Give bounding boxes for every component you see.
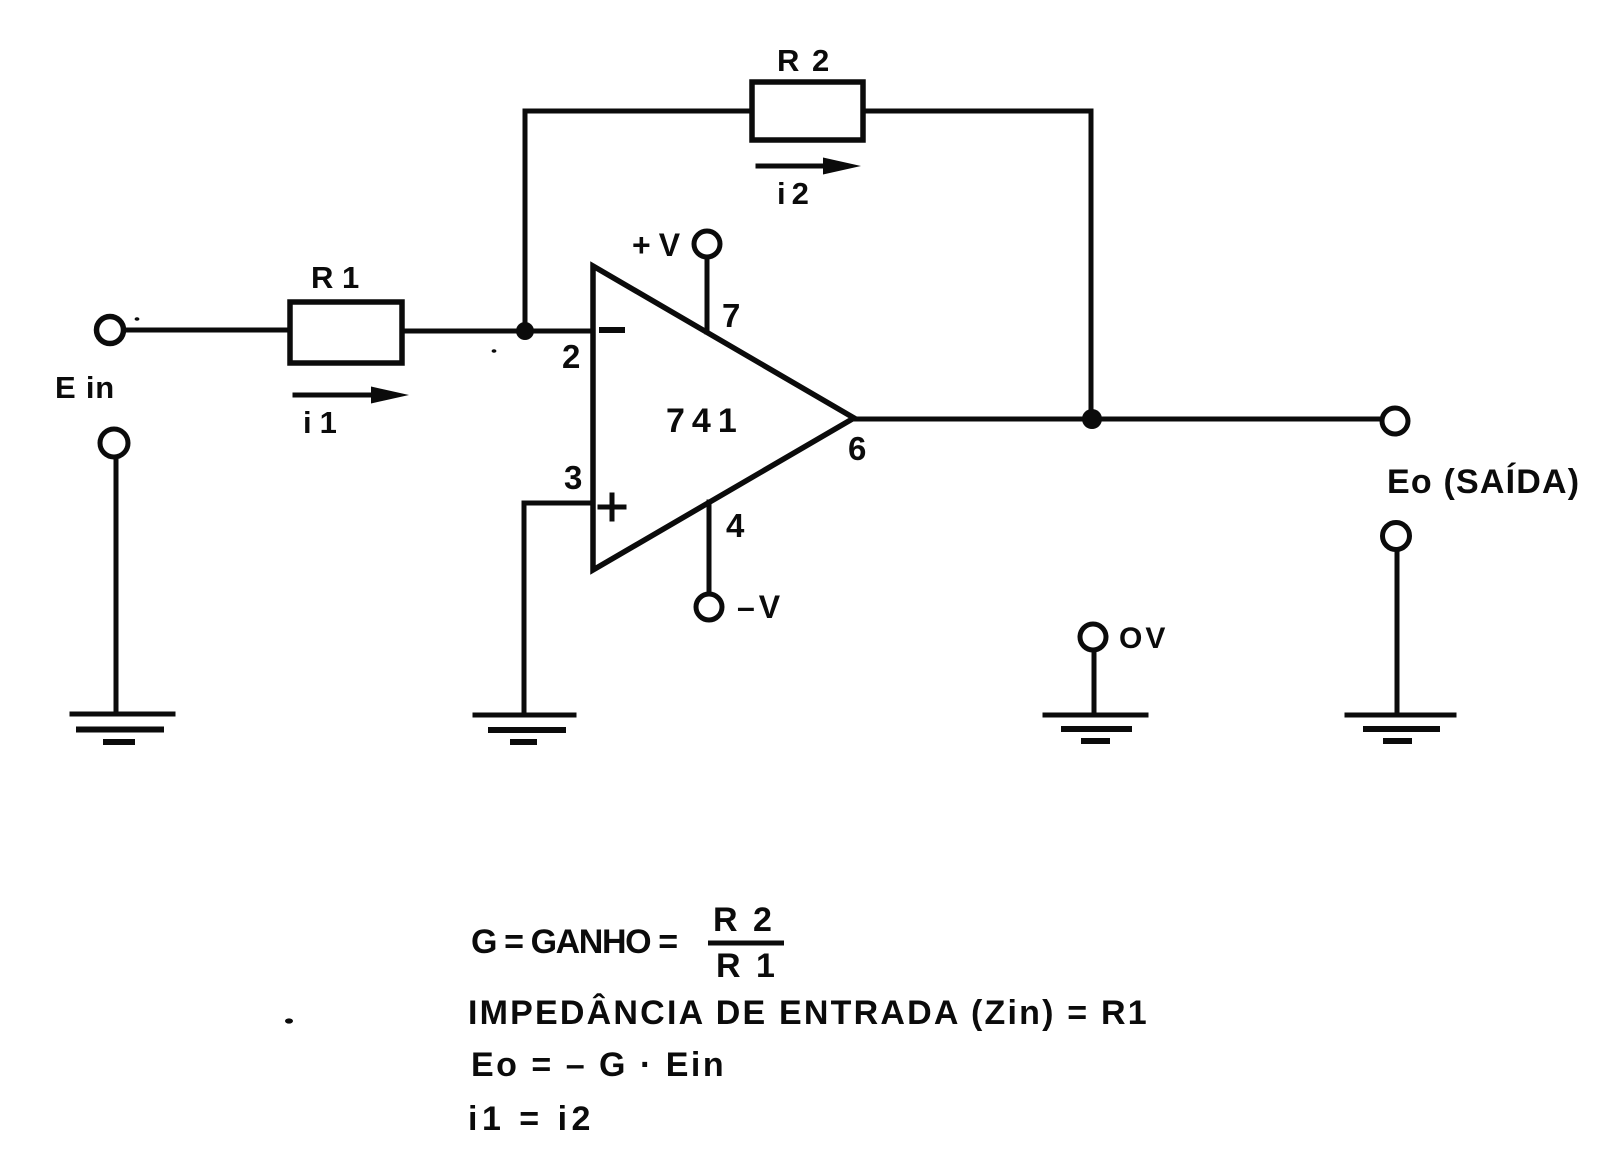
svg-text:IMPEDÂNCIA DE ENTRADA (Zin) =: IMPEDÂNCIA DE ENTRADA (Zin) = R1 (468, 994, 1149, 1032)
svg-text:–V: –V (737, 589, 784, 625)
svg-text:i1 = i2: i1 = i2 (468, 1100, 595, 1138)
resistor R1 (290, 302, 402, 363)
svg-text:+V: +V (632, 227, 688, 263)
svg-text:i2: i2 (777, 176, 815, 211)
plus sign at pin 3 (600, 495, 624, 519)
terminal +V (694, 231, 720, 257)
speck artifact below output wire of R1 (492, 349, 497, 353)
wire op-amp output to terminal (854, 417, 1381, 422)
ground under 0V (1045, 715, 1146, 741)
terminal Ein ground side (100, 429, 128, 457)
svg-text:741: 741 (666, 402, 744, 440)
svg-text:i1: i1 (303, 405, 345, 440)
svg-text:3: 3 (564, 459, 582, 496)
fraction bar R2 over R1 (708, 941, 784, 946)
wire pin 4 to -V (707, 502, 712, 593)
svg-text:OV: OV (1119, 622, 1168, 655)
terminal -V (696, 594, 722, 620)
terminal Eo output (1382, 408, 1408, 434)
ground under pin 3 (475, 715, 574, 742)
wire op-amp pin 3 to ground (524, 503, 593, 713)
wire R1 to node (402, 329, 525, 334)
arrow i2 (758, 158, 861, 175)
op-amp U1 741 triangle (593, 266, 854, 570)
node junction at inverting input (516, 322, 534, 340)
wire feedback top left to R2 (525, 109, 752, 114)
svg-text:Eo = – G · Ein: Eo = – G · Ein (471, 1046, 726, 1084)
ground under Eo (1347, 715, 1454, 741)
svg-text:E in: E in (55, 370, 115, 405)
svg-text:R 1: R 1 (716, 947, 778, 985)
wire input to R1 (124, 328, 290, 333)
svg-text:G = GANHO =: G = GANHO = (471, 923, 677, 961)
resistor R2 (752, 82, 863, 140)
wire pin 7 to +V (705, 258, 710, 332)
svg-text:R 2: R 2 (777, 43, 831, 78)
svg-text:R 1: R 1 (311, 260, 359, 295)
terminal Eo ground side (1383, 523, 1410, 550)
wire R2 to right vertical (863, 109, 1091, 114)
svg-text:2: 2 (562, 338, 580, 375)
ground under Ein (72, 714, 173, 742)
svg-text:Eo (SAÍDA): Eo (SAÍDA) (1387, 463, 1580, 501)
svg-text:4: 4 (726, 507, 745, 544)
terminal Ein input (97, 317, 124, 344)
terminal 0V (1080, 624, 1106, 650)
minus sign at pin 2 (602, 327, 622, 333)
wire node to op-amp pin 2 (525, 329, 593, 334)
arrow i1 (295, 387, 409, 404)
svg-text:7: 7 (722, 297, 740, 334)
svg-text:6: 6 (848, 430, 866, 467)
speck artifact near input (135, 317, 140, 321)
wire 0V to ground (1092, 650, 1097, 713)
node junction at output (1082, 409, 1102, 429)
svg-text:R 2: R 2 (713, 901, 775, 939)
wire right vertical to output node (1089, 111, 1094, 419)
speck artifact left of formulas (285, 1018, 293, 1023)
wire feedback vertical left (523, 111, 528, 331)
formula gain G equals R2 over R1 (471, 901, 778, 985)
wire Ein terminal to ground (114, 457, 119, 713)
wire Eo terminal to ground (1395, 550, 1400, 713)
